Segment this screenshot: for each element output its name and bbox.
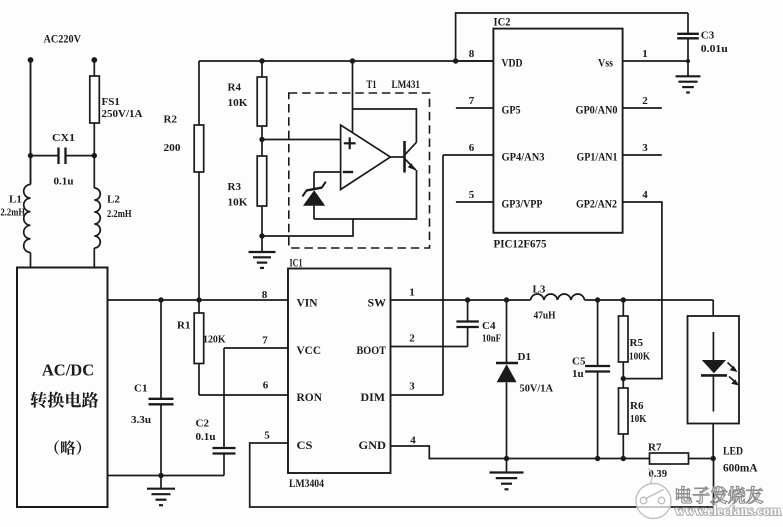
svg-text:4: 4 [410,435,416,447]
label L2 value 2.2mH [107,209,132,220]
watermark text 电子发烧友 [676,486,763,503]
label LM3404 [289,476,324,490]
wire R2 bottom to VIN [198,172,200,300]
label pin 7 VCC [262,335,268,347]
wire VCC stub [224,347,288,349]
resistor R3 [257,156,267,206]
wire CS stub and bottom run [250,443,714,507]
svg-text:R4: R4 [228,82,242,94]
svg-text:DIM: DIM [361,390,386,404]
svg-text:IC2: IC2 [494,15,511,29]
label Vss [598,56,613,70]
capacitor C1 [149,300,174,476]
label CX1 value 0.1u [54,176,74,188]
label R2 [164,114,178,126]
wire right AC line middle [93,123,95,188]
wire pin2 stub [623,107,662,109]
label D1 [518,351,531,363]
label pin 8 VIN [262,289,268,301]
ground below R3 [249,236,276,268]
svg-text:8: 8 [469,48,475,60]
svg-text:C2: C2 [196,418,210,430]
svg-text:10K: 10K [630,413,647,425]
label 转换电路 [31,392,99,408]
svg-text:4: 4 [642,189,648,201]
capacitor C2 [213,348,236,476]
svg-text:600mA: 600mA [723,461,758,475]
junction R1 top [196,297,201,302]
junction C1 bottom [158,473,163,478]
junction R5 R6 divider [621,376,626,381]
svg-text:GP1/AN1: GP1/AN1 [577,150,618,164]
svg-text:R6: R6 [630,400,644,412]
LED arrow 2 [729,377,739,386]
svg-text:GND: GND [359,438,387,452]
label pin 5 CS [264,430,270,442]
svg-text:LM3404: LM3404 [289,476,324,490]
label LED current 600mA [723,461,758,475]
IC U1 LM3404 box [288,269,391,474]
label D1 value 50V/1A [520,383,554,395]
inductor L2 [94,188,100,268]
label C3 [701,30,715,42]
svg-text:GP0/AN0: GP0/AN0 [576,103,618,117]
svg-text:CS: CS [297,438,313,452]
capacitor C5 [585,300,610,459]
label BOOT [357,343,387,357]
wire pin7 stub GP5 [456,107,494,109]
wire GP4 to DIM [442,155,444,395]
svg-text:5: 5 [264,430,270,442]
label pin 1 [642,48,648,60]
svg-text:FS1: FS1 [102,96,120,108]
svg-text:200: 200 [164,142,182,154]
label pin 3 DIM [409,381,415,393]
svg-text:L3: L3 [533,284,546,296]
label GP4/AN3 [502,150,545,164]
wire VIN rail [108,299,289,301]
resistor R2 [194,125,204,172]
ground below C3 [676,76,701,92]
IC U2 PIC12F675 box [493,29,622,233]
LED block box [688,316,740,424]
label pin 4 [642,189,648,201]
wire emitter down [314,170,417,219]
inductor L3 [531,294,585,300]
wire BOOT stub [391,346,468,348]
label pin 1 SW [409,287,415,299]
svg-text:2: 2 [642,95,648,107]
label C1 value 3.3u [131,414,151,426]
label L1 value 2.2mH [1,208,26,219]
label PIC12F675 [494,237,547,251]
junction R4 top [259,58,264,63]
label FS1 [102,96,120,108]
ground below C1 [147,476,175,506]
label VCC [297,343,322,357]
wire right AC line upper [93,60,95,76]
wire SW rail after L3 [585,299,714,301]
svg-text:R5: R5 [630,337,644,349]
label C2 value 0.1u [196,431,216,443]
label GP3/VPP [502,197,543,211]
wire pin6 stub GP4/AN3 [443,154,493,156]
label VIN [297,296,318,310]
svg-text:2.2mH: 2.2mH [107,209,132,220]
label C3 value 0.01u [701,43,728,55]
wire SW rail [391,299,531,301]
wire R4 top [261,61,263,77]
svg-text:7: 7 [262,335,268,347]
label CX1 [52,132,75,144]
label R4 [228,82,242,94]
label LM431 [392,77,421,91]
label DIM [361,390,386,404]
label R1 value 120K [203,334,226,346]
junction C1 top [158,297,163,302]
wire DIM stub [391,394,444,396]
svg-text:C4: C4 [482,320,496,332]
op-amp U1 triangle [341,125,391,190]
wire opamp out to base [390,156,404,158]
svg-text:6: 6 [469,142,475,154]
label L1 [9,194,22,206]
watermark url www.elecfans.com [675,504,781,519]
label R4 value 10K [228,97,248,109]
svg-text:C3: C3 [701,30,715,42]
svg-text:3.3u: 3.3u [131,414,151,426]
svg-text:VIN: VIN [297,296,318,310]
watermark logo circle [636,468,671,519]
svg-text:C5: C5 [572,356,586,368]
svg-text:www.elecfans.com: www.elecfans.com [675,504,781,519]
wire LED top feed [712,300,714,316]
label GP5 [502,103,521,117]
svg-text:CX1: CX1 [52,132,75,144]
svg-text:5: 5 [469,189,475,201]
svg-text:6: 6 [263,380,269,392]
wire R3 bottom to zener net [262,219,353,236]
label R5 [630,337,644,349]
svg-text:10nF: 10nF [482,333,501,345]
svg-text:0.1u: 0.1u [54,176,74,188]
junction VDD [453,58,458,63]
label RON [297,390,323,404]
resistor R1 [194,300,204,395]
wire pin1 stub Vss [623,60,688,62]
label GND [359,438,387,452]
svg-text:10K: 10K [228,197,248,209]
junction R3 bottom [259,233,264,238]
svg-text:RON: RON [297,390,323,404]
label C4 value 10nF [482,333,501,345]
fuse FS1 [90,76,100,123]
junction C5 top [595,297,600,302]
label FS1 value 250V/1A [102,109,143,120]
wire T1 cathode drop [353,61,417,143]
wire zener top / opamp minus [314,171,341,173]
svg-text:100K: 100K [629,351,650,363]
junction D1 bottom [504,456,509,461]
svg-text:2.2mH: 2.2mH [1,208,26,219]
svg-text:1u: 1u [572,368,584,380]
svg-text:GP2/AN2: GP2/AN2 [576,197,617,211]
label AC/DC [42,361,94,380]
svg-text:VDD: VDD [502,56,523,70]
label L3 value 47uH [534,310,556,322]
label R3 value 10K [228,197,248,209]
zener diode VR1 [302,172,325,219]
wire left AC line upper [30,60,32,185]
junction R6 bottom [621,456,626,461]
svg-text:GP5: GP5 [502,103,521,117]
label R5 value 100K [629,351,650,363]
label T1 [367,77,377,91]
svg-text:AC/DC: AC/DC [42,361,94,380]
svg-text:GP3/VPP: GP3/VPP [502,197,543,211]
capacitor C3 [677,13,699,76]
label R7 [648,442,662,454]
wire R3 bottom [261,206,263,236]
svg-text:1: 1 [409,287,415,299]
svg-text:C1: C1 [134,383,147,395]
junction T1 supply [350,58,355,63]
wire gnd rail bottom-left [108,475,225,477]
LED D2 symbol [701,332,727,412]
node AC220V input terminal right [91,57,97,63]
junction D1 top [504,297,509,302]
svg-text:SW: SW [368,296,387,310]
label pin 6 [469,142,475,154]
svg-text:8: 8 [262,289,268,301]
capacitor CX1 [31,148,95,165]
junction C5 bottom [595,456,600,461]
label AC220V [44,32,82,46]
label pin 7 [469,95,475,107]
wire divider to opamp plus [262,139,341,141]
junction R5 top [621,297,626,302]
svg-text:120K: 120K [203,334,226,346]
resistor R7 [650,453,714,464]
label R1 [177,320,190,332]
label C5 [572,356,586,368]
label IC2 [494,15,511,29]
svg-text:R3: R3 [228,181,242,193]
label R7 value 0.39 [649,468,668,480]
wire RON stub [199,394,288,396]
label R6 [630,400,644,412]
junction LED bottom node [711,456,716,461]
label CS [297,438,313,452]
shunt regulator T1 dashed outline [289,93,430,248]
svg-text:3: 3 [409,381,415,393]
label LED [723,444,743,458]
wire R4-R3 node [261,126,263,156]
svg-text:R7: R7 [648,442,662,454]
svg-text:AC220V: AC220V [44,32,82,46]
svg-text:PIC12F675: PIC12F675 [494,237,547,251]
junction pin1 C3 [686,59,690,63]
label pin 3 [642,142,648,154]
label R2 value 200 [164,142,182,154]
svg-text:BOOT: BOOT [357,343,387,357]
wire pin5 stub GP3/VPP [456,201,494,203]
label L3 [533,284,546,296]
svg-text:50V/1A: 50V/1A [520,383,554,395]
svg-text:3: 3 [642,142,648,154]
svg-text:LM431: LM431 [392,77,421,91]
label R6 value 10K [630,413,647,425]
svg-text:47uH: 47uH [534,310,556,322]
label C5 value 1u [572,368,584,380]
label pin 2 [642,95,648,107]
svg-text:GP4/AN3: GP4/AN3 [502,150,545,164]
LED arrow 1 [728,363,738,373]
wire pin8 stub [456,60,494,62]
svg-text:1: 1 [642,48,648,60]
label pin 8 [469,48,475,60]
svg-text:0.01u: 0.01u [701,43,728,55]
svg-text:10K: 10K [228,97,248,109]
label C4 [482,320,496,332]
transistor Q1 collector [405,142,417,155]
svg-text:Vss: Vss [598,56,613,70]
junction CX1 right [92,153,97,158]
wire top VDD feed [456,13,688,61]
label IC1 [290,256,303,270]
wire pin4 stub GP2/AN2 to divider [623,202,662,379]
label GP0/AN0 [576,103,618,117]
label （略） [54,440,81,455]
label SW [368,296,387,310]
label L2 [107,194,120,206]
wire R2 top [198,61,200,125]
svg-text:IC1: IC1 [290,256,303,270]
svg-text:T1: T1 [367,77,377,91]
label pin 6 RON [263,380,269,392]
resistor R4 [257,77,267,126]
block AC/DC converter [17,268,108,508]
resistor R6 [619,379,629,459]
wire GND pin run [391,446,650,459]
svg-text:D1: D1 [518,351,531,363]
label pin 4 GND [410,435,416,447]
label C1 [134,383,147,395]
label C2 [196,418,210,430]
svg-text:2: 2 [409,333,415,345]
resistor R5 [619,300,629,379]
diode D1 [496,300,518,459]
transistor Q1 base bar [403,141,406,173]
label GP1/AN1 [577,150,618,164]
svg-text:LED: LED [723,444,743,458]
junction R4 R3 divider [259,137,264,142]
svg-text:0.1u: 0.1u [196,431,216,443]
svg-text:L1: L1 [9,194,22,206]
label pin 5 [469,189,475,201]
label R3 [228,181,242,193]
transistor Q1 emitter [405,159,416,171]
svg-text:R2: R2 [164,114,178,126]
node AC220V input terminal left [28,57,34,63]
inductor L1 [24,60,31,268]
svg-text:R1: R1 [177,320,190,332]
ground below D1 [490,459,524,490]
wire LED bottom [712,424,714,459]
wire pin3 stub [623,154,662,156]
label pin 2 BOOT [409,333,415,345]
svg-text:7: 7 [469,95,475,107]
svg-text:VCC: VCC [297,343,322,357]
capacitor C4 [456,300,478,347]
svg-text:250V/1A: 250V/1A [102,109,143,120]
wire main top rail [199,60,493,62]
svg-text:L2: L2 [107,194,120,206]
label GP2/AN2 [576,197,617,211]
junction C4 top [465,297,470,302]
junction CX1 left [28,153,33,158]
label VDD [502,56,523,70]
